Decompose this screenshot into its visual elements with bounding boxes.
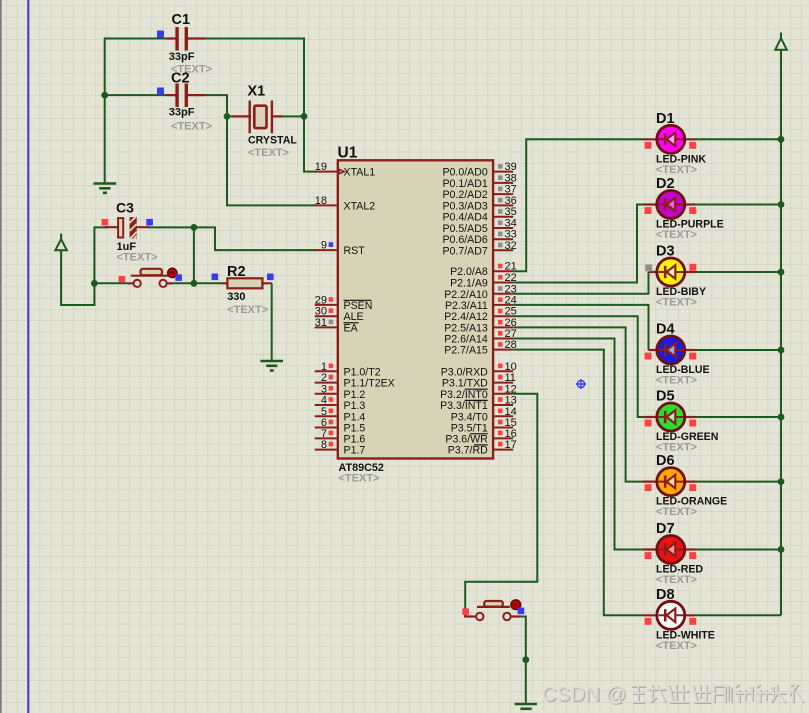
wire pin21 to D1 <box>513 139 643 271</box>
svg-text:<TEXT>: <TEXT> <box>656 297 697 309</box>
svg-text:<TEXT>: <TEXT> <box>656 164 697 176</box>
svg-text:P1.3: P1.3 <box>344 400 366 412</box>
svg-text:<TEXT>: <TEXT> <box>339 473 380 485</box>
node rail D7 <box>778 546 785 553</box>
wire C3 right to RST <box>148 227 316 250</box>
U1 right pin numbers <box>505 161 517 451</box>
svg-text:P0.5/AD5: P0.5/AD5 <box>442 223 487 235</box>
wire D7 right <box>695 549 781 551</box>
resistor R2 <box>212 264 274 316</box>
node C3 right <box>191 224 198 231</box>
svg-text:12: 12 <box>505 383 517 395</box>
svg-text:C2: C2 <box>171 71 190 87</box>
svg-text:34: 34 <box>505 218 517 230</box>
svg-text:7: 7 <box>321 428 327 440</box>
node VCC/button1 <box>91 280 98 287</box>
svg-text:30: 30 <box>315 306 327 318</box>
svg-text:28: 28 <box>505 339 517 351</box>
U1 right pin squares <box>498 164 503 446</box>
wire C1 row left <box>105 38 166 40</box>
wire pin22 to D2 <box>513 205 643 283</box>
svg-text:31: 31 <box>315 317 327 329</box>
svg-text:D2: D2 <box>656 176 675 192</box>
svg-text:<TEXT>: <TEXT> <box>656 442 697 454</box>
svg-text:<TEXT>: <TEXT> <box>656 229 697 241</box>
pin XTAL1 input arrow <box>339 169 344 173</box>
wire VCC right rail <box>780 50 782 616</box>
svg-text:P0.0/AD0: P0.0/AD0 <box>442 167 487 179</box>
svg-text:D7: D7 <box>656 521 675 537</box>
svg-text:25: 25 <box>505 306 517 318</box>
svg-text:P2.3/A11: P2.3/A11 <box>445 300 488 312</box>
svg-text:3: 3 <box>321 383 327 395</box>
svg-text:<TEXT>: <TEXT> <box>656 640 697 652</box>
svg-text:1: 1 <box>321 361 327 373</box>
node crystal right <box>301 113 308 120</box>
svg-text:D6: D6 <box>656 453 675 469</box>
wire button2 to ground3 <box>520 617 525 703</box>
power arrow VCC right <box>775 33 787 50</box>
node rail D1 <box>778 136 785 143</box>
wire pin28 to D8 <box>513 350 643 616</box>
wire pin25 to D5 <box>513 316 643 417</box>
svg-text:19: 19 <box>315 161 327 173</box>
svg-text:D1: D1 <box>656 111 675 127</box>
wire left ground drop <box>104 38 106 184</box>
svg-text:XTAL1: XTAL1 <box>344 167 376 179</box>
capacitor C3 (polarized 1uF) <box>102 200 158 264</box>
svg-text:16: 16 <box>505 428 517 440</box>
wire C2 row left <box>105 94 166 96</box>
U1 right pin labels <box>440 167 488 457</box>
svg-text:P0.7/AD7: P0.7/AD7 <box>442 245 487 257</box>
wire crystal left link <box>227 115 232 117</box>
svg-text:RST: RST <box>344 245 366 257</box>
wire pin27 to D7 <box>513 339 643 550</box>
U1 left pin squares <box>329 242 334 446</box>
svg-text:D5: D5 <box>656 389 675 405</box>
svg-text:ALE: ALE <box>344 311 364 323</box>
svg-text:P2.7/A15: P2.7/A15 <box>444 345 488 357</box>
svg-text:2: 2 <box>321 372 327 384</box>
svg-text:P0.1/AD1: P0.1/AD1 <box>442 178 487 190</box>
ground G3 <box>515 704 537 709</box>
svg-text:9: 9 <box>321 240 327 252</box>
ground G2 <box>260 361 283 371</box>
svg-text:P2.4/A12: P2.4/A12 <box>444 311 488 323</box>
node rail D3 <box>778 269 785 276</box>
svg-text:21: 21 <box>505 261 517 273</box>
ground G1 <box>93 184 116 193</box>
U1 left pin stubs <box>315 172 338 450</box>
node button1/R2 <box>191 280 198 287</box>
svg-text:11: 11 <box>505 372 516 384</box>
svg-text:14: 14 <box>505 406 517 418</box>
wire D1 right <box>695 138 781 140</box>
LED D3 (LED-BIBY) <box>645 244 706 309</box>
LED D1 (LED-PINK) <box>643 111 706 176</box>
op-amp U1 body (AT89C52 MCU) <box>338 145 494 485</box>
svg-text:CSDN @: CSDN @ <box>542 683 627 706</box>
svg-text:36: 36 <box>505 195 517 207</box>
svg-text:<TEXT>: <TEXT> <box>656 506 697 518</box>
wire button1 row left <box>94 282 128 284</box>
svg-text:13: 13 <box>505 395 517 407</box>
svg-text:5: 5 <box>321 406 327 418</box>
node rail D5 <box>778 414 785 421</box>
wire D4 right <box>695 349 781 351</box>
svg-text:<TEXT>: <TEXT> <box>656 574 697 586</box>
capacitor C1 <box>157 12 212 76</box>
power arrow VCC left <box>55 234 67 251</box>
svg-text:29: 29 <box>315 294 327 306</box>
svg-text:33pF: 33pF <box>169 51 195 63</box>
svg-text:18: 18 <box>315 195 327 207</box>
svg-text:<TEXT>: <TEXT> <box>171 121 212 133</box>
pin label overlines <box>344 300 488 445</box>
svg-text:C1: C1 <box>172 12 191 28</box>
svg-text:P1.7: P1.7 <box>344 445 366 457</box>
svg-text:XTAL2: XTAL2 <box>344 200 376 212</box>
wire pin24 to D4 <box>513 305 648 350</box>
button SW1 (left) <box>119 268 182 287</box>
svg-text:X1: X1 <box>248 84 266 100</box>
watermark CSDN <box>542 683 804 707</box>
LED D4 (LED-BLUE) <box>645 322 710 387</box>
button SW2 (right, on P3.2) <box>462 600 524 620</box>
svg-text:EA: EA <box>344 322 359 334</box>
svg-text:P2.1/A9: P2.1/A9 <box>450 278 488 290</box>
wire pin26 to D6 <box>513 327 643 481</box>
svg-text:P1.2: P1.2 <box>344 389 366 401</box>
wire D3 right <box>695 271 781 273</box>
svg-text:<TEXT>: <TEXT> <box>656 375 697 387</box>
svg-text:C3: C3 <box>116 200 134 216</box>
wire pin23 to D3 <box>513 272 648 294</box>
origin marker (blue crosshair) <box>576 379 586 389</box>
wire R2 to ground2 <box>271 283 273 359</box>
svg-text:P3.7/RD: P3.7/RD <box>448 445 488 457</box>
svg-text:P3.2/INT0: P3.2/INT0 <box>440 389 488 401</box>
U1 right pin stubs <box>493 172 513 450</box>
wire crystal right link <box>280 115 304 117</box>
svg-text:P2.0/A8: P2.0/A8 <box>450 266 488 278</box>
node crystal left <box>224 113 231 120</box>
svg-text:P0.2/AD2: P0.2/AD2 <box>442 189 487 201</box>
svg-text:330: 330 <box>227 291 245 303</box>
sheet border (blue) <box>27 0 29 713</box>
wire C2 right to x227 down to XTAL2 <box>205 95 316 205</box>
wire D2 right <box>695 204 781 206</box>
svg-text:P3.0/RXD: P3.0/RXD <box>441 366 488 378</box>
node rail D6 <box>778 478 785 485</box>
svg-text:37: 37 <box>505 184 517 196</box>
svg-text:17: 17 <box>505 439 517 451</box>
svg-text:CRYSTAL: CRYSTAL <box>248 135 297 147</box>
LED D7 (LED-RED) <box>643 521 703 586</box>
svg-text:D4: D4 <box>656 322 675 338</box>
svg-text:P3.4/T0: P3.4/T0 <box>451 411 488 423</box>
svg-text:P3.6/WR: P3.6/WR <box>445 433 488 445</box>
svg-text:8: 8 <box>321 439 327 451</box>
LED D8 (LED-WHITE) <box>643 587 715 652</box>
svg-text:P1.0/T2: P1.0/T2 <box>344 366 381 378</box>
svg-text:<TEXT>: <TEXT> <box>227 304 268 316</box>
U1 left pin numbers <box>315 161 327 451</box>
svg-text:P3.3/INT1: P3.3/INT1 <box>440 400 488 412</box>
node rail D2 <box>778 201 785 208</box>
LED D5 (LED-GREEN) <box>643 389 718 454</box>
crystal X1 <box>232 84 297 160</box>
wire D6 right <box>695 481 781 483</box>
svg-text:22: 22 <box>505 272 517 284</box>
node C1/C2 left <box>101 92 108 99</box>
LED D6 (LED-ORANGE) <box>643 453 727 518</box>
wire C1 right to x304 down to XTAL1 <box>205 39 316 172</box>
svg-text:PSEN: PSEN <box>344 300 373 312</box>
svg-text:R2: R2 <box>227 264 246 280</box>
svg-text:P0.4/AD4: P0.4/AD4 <box>442 212 487 224</box>
svg-text:10: 10 <box>505 361 517 373</box>
svg-text:24: 24 <box>505 294 517 306</box>
svg-text:<TEXT>: <TEXT> <box>117 252 158 264</box>
svg-text:4: 4 <box>321 395 327 407</box>
wire button1 to R2 <box>173 282 223 284</box>
node button2 drop <box>522 656 529 663</box>
svg-text:P0.3/AD3: P0.3/AD3 <box>442 200 487 212</box>
svg-text:P1.4: P1.4 <box>344 411 366 423</box>
wire C3 node down to button row <box>193 227 195 283</box>
node rail D4 <box>778 347 785 354</box>
svg-text:P3.1/TXD: P3.1/TXD <box>442 378 488 390</box>
svg-text:U1: U1 <box>338 145 358 162</box>
window left edge <box>0 0 2 713</box>
wire pin12 to button2 <box>465 394 537 609</box>
wire D5 right <box>695 416 781 418</box>
U1 left pin labels <box>344 167 395 457</box>
svg-text:33pF: 33pF <box>169 107 195 119</box>
capacitor C2 <box>157 71 212 133</box>
svg-text:38: 38 <box>505 172 517 184</box>
wire D8 right <box>695 614 781 616</box>
svg-text:<TEXT>: <TEXT> <box>248 147 289 159</box>
LED D2 (LED-PURPLE) <box>643 176 724 241</box>
svg-text:35: 35 <box>505 206 517 218</box>
svg-text:D3: D3 <box>656 244 675 260</box>
svg-text:39: 39 <box>505 161 517 173</box>
svg-text:P1.6: P1.6 <box>344 433 366 445</box>
svg-text:32: 32 <box>505 240 517 252</box>
wire VCC left run <box>61 227 108 305</box>
svg-text:P1.1/T2EX: P1.1/T2EX <box>344 378 395 390</box>
svg-text:D8: D8 <box>656 587 675 603</box>
